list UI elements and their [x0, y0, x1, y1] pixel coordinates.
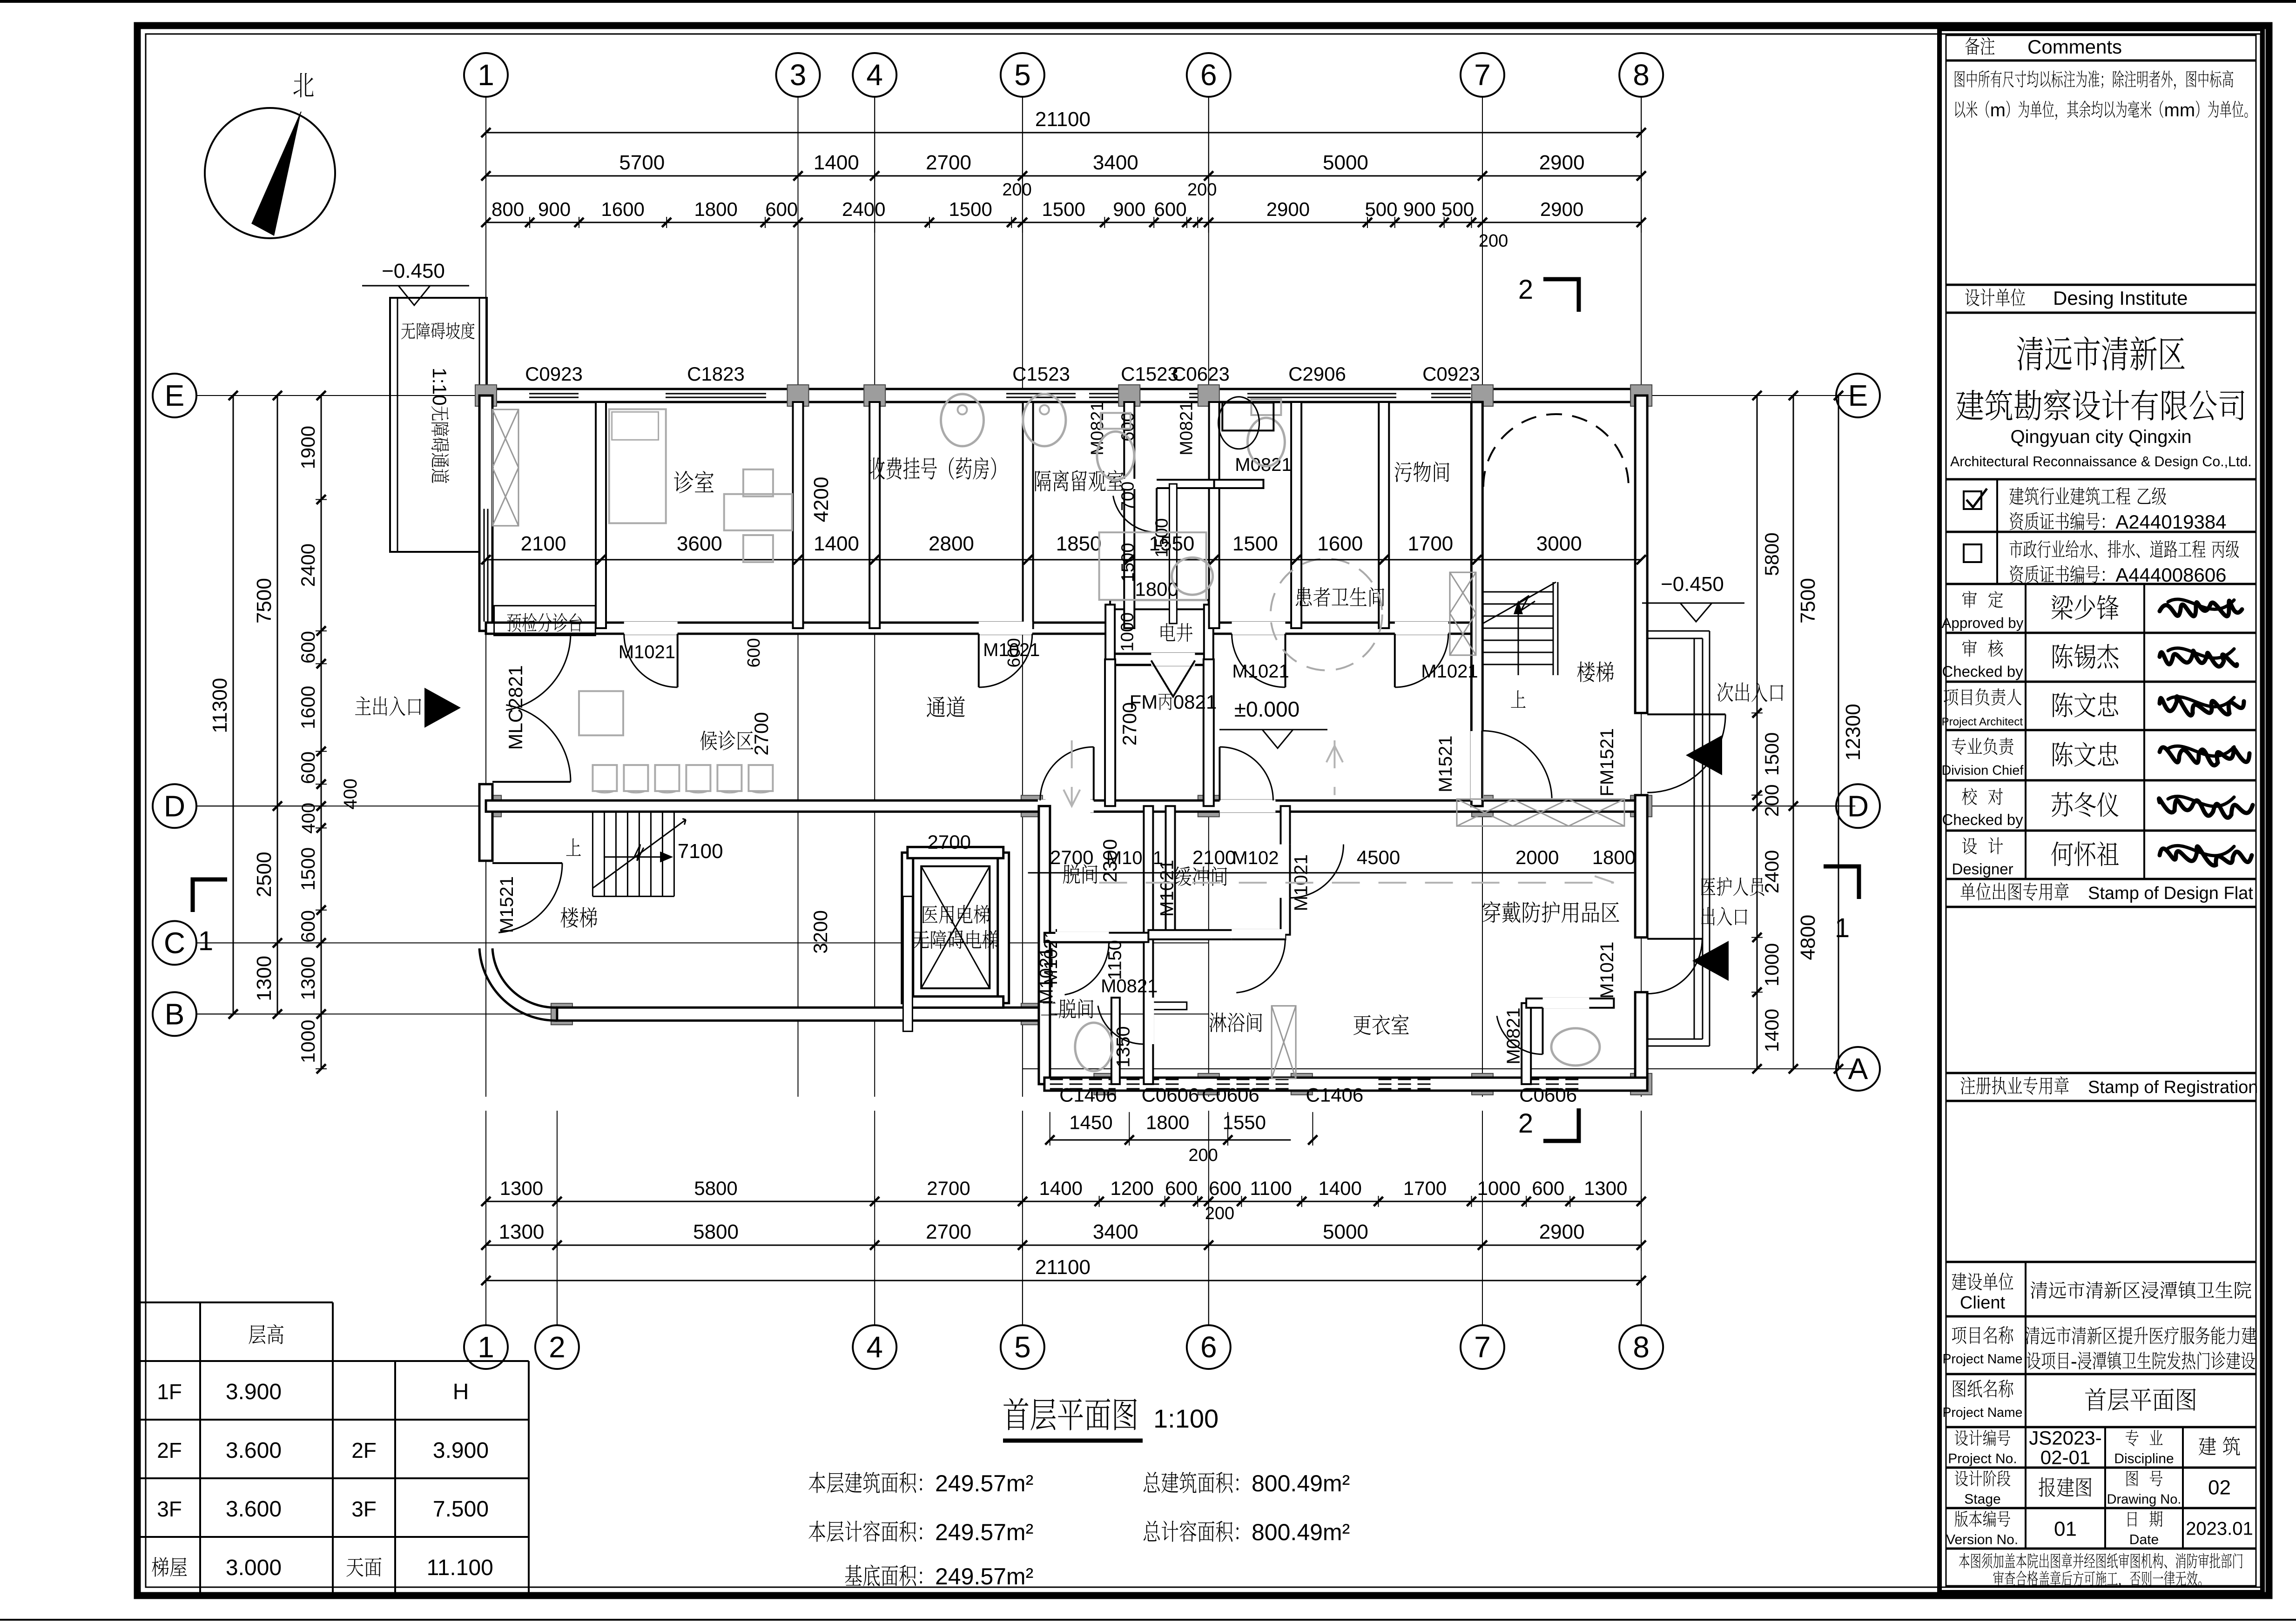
page bottom edge line	[0, 1619, 2296, 1621]
svg-text:C1523: C1523	[1012, 363, 1070, 385]
svg-text:7500: 7500	[1797, 578, 1819, 624]
main entrance label	[355, 697, 371, 715]
stamp of registration header	[1960, 1077, 1975, 1094]
windows in top wall	[529, 389, 579, 390]
svg-text:7100: 7100	[678, 840, 723, 863]
svg-text:1500: 1500	[1761, 732, 1783, 776]
svg-text:C0923: C0923	[1422, 363, 1480, 385]
cabinet in triage room	[492, 409, 518, 526]
accessible ramp box	[390, 298, 487, 552]
svg-text:2300: 2300	[1099, 839, 1121, 882]
svg-text:FM1521: FM1521	[1597, 728, 1617, 797]
svg-text:Project Architect: Project Architect	[1942, 716, 2023, 728]
svg-text:1300: 1300	[499, 1221, 545, 1243]
svg-text:8: 8	[1633, 1330, 1650, 1364]
svg-text:1200: 1200	[1110, 1177, 1153, 1199]
svg-text:5800: 5800	[694, 1177, 737, 1199]
flow dashed arrows gray	[1099, 882, 1614, 884]
title block rails	[1946, 60, 2256, 62]
door FM1021 staff exit	[1647, 938, 1702, 940]
svg-text:C: C	[164, 926, 185, 959]
furniture 诊室 bed	[609, 409, 666, 523]
svg-text:3.900: 3.900	[433, 1438, 489, 1463]
approval row Checked by 陈锡杰	[1962, 640, 1977, 657]
svg-text:2F: 2F	[157, 1438, 182, 1462]
svg-text:1500: 1500	[1152, 518, 1172, 558]
svg-text:2500: 2500	[253, 852, 276, 897]
预检分诊台 box	[494, 606, 596, 636]
room labels suite	[1063, 864, 1080, 884]
svg-text:1500: 1500	[1118, 543, 1138, 583]
left stair diagonal cut	[593, 820, 686, 888]
grid bubble 5 top	[1001, 53, 1044, 97]
secondary exit label	[1717, 682, 1733, 702]
备注 Comments	[1965, 37, 1980, 55]
right stair arrow	[1518, 608, 1519, 675]
svg-text:1900: 1900	[297, 426, 319, 469]
svg-text:600: 600	[1004, 638, 1024, 667]
svg-text:500: 500	[1441, 198, 1474, 220]
columns on E axis	[475, 385, 497, 406]
D wall left part	[486, 800, 1044, 811]
svg-text:12300: 12300	[1842, 704, 1865, 760]
svg-text:Division Chief: Division Chief	[1942, 763, 2024, 778]
waiting chairs	[593, 765, 617, 791]
svg-text:C0606: C0606	[1142, 1084, 1199, 1106]
svg-text:4800: 4800	[1797, 915, 1819, 960]
chair 预检分诊台	[579, 691, 623, 735]
svg-text:200: 200	[1205, 1204, 1234, 1223]
left stair treads	[592, 812, 593, 896]
svg-text:Stamp of Registration: Stamp of Registration	[2088, 1078, 2258, 1097]
svg-text:7.500: 7.500	[433, 1497, 489, 1522]
door M1521 stair room entry	[1470, 731, 1483, 800]
svg-text:1800: 1800	[1146, 1111, 1189, 1133]
door M1021 into 诊室	[624, 622, 678, 635]
svg-text:4: 4	[866, 58, 883, 92]
svg-text:H: H	[453, 1380, 469, 1404]
svg-text:M1021: M1021	[1421, 661, 1478, 682]
svg-text:200: 200	[1188, 1146, 1218, 1165]
svg-text:3400: 3400	[1093, 151, 1138, 174]
door M1021 in D wall right	[1219, 799, 1275, 812]
svg-text:Comments: Comments	[2027, 36, 2122, 58]
north label 北	[293, 73, 313, 98]
grid bubble E right	[1836, 374, 1880, 417]
grid bubble D right	[1836, 784, 1880, 828]
project name row	[1952, 1327, 1966, 1344]
svg-text:2900: 2900	[1539, 1221, 1585, 1243]
svg-text:2100: 2100	[1192, 846, 1236, 868]
svg-text:400: 400	[340, 778, 361, 810]
svg-text:5: 5	[1014, 1330, 1031, 1364]
dashed arch right stair room	[1483, 414, 1629, 487]
door M1021 in D wall left	[1038, 799, 1094, 812]
south wall of suite	[1044, 1078, 1647, 1091]
svg-text:900: 900	[1403, 198, 1436, 220]
svg-text:D: D	[164, 789, 185, 823]
svg-text:Approved by: Approved by	[1942, 615, 2024, 631]
dimension chain left minor	[321, 396, 322, 1069]
section mark 1 right	[1824, 866, 1859, 899]
dimension chain top major	[486, 175, 1641, 177]
svg-text:11300: 11300	[209, 678, 231, 733]
left exterior wall lower + M1521	[479, 784, 492, 861]
dimension chain right mid	[1793, 396, 1794, 1069]
grid bubble B left	[153, 992, 196, 1036]
svg-text:5800: 5800	[1761, 532, 1783, 576]
svg-text:800.49m²: 800.49m²	[1252, 1470, 1350, 1496]
svg-text:M1521: M1521	[497, 876, 517, 933]
svg-text:Project No.: Project No.	[1948, 1451, 2017, 1467]
svg-text:1400: 1400	[1318, 1177, 1361, 1199]
dimension chain right minor	[1757, 396, 1758, 1069]
svg-text:mm: mm	[2164, 100, 2195, 121]
svg-text:Stamp of Design Flat: Stamp of Design Flat	[2088, 884, 2253, 903]
svg-text:600: 600	[744, 638, 764, 667]
right stair treads	[1482, 591, 1553, 593]
svg-text:600: 600	[1165, 1177, 1198, 1199]
approval row Division Chief 陈文忠	[1952, 738, 1966, 755]
svg-text:2800: 2800	[929, 532, 974, 555]
section mark 1 left	[193, 879, 227, 912]
svg-text:2000: 2000	[1515, 846, 1559, 868]
svg-text:M0821: M0821	[1235, 455, 1292, 475]
svg-text:1500: 1500	[297, 847, 319, 891]
toilet in C0623 WC black	[1219, 397, 1259, 449]
right exterior wall	[1635, 396, 1647, 713]
approval row Designer 何怀祖	[1962, 838, 1977, 854]
svg-text:M0821: M0821	[1177, 401, 1197, 455]
drawing name row	[1953, 1380, 1966, 1398]
svg-text:−0.450: −0.450	[1661, 573, 1724, 596]
suite partitions	[1144, 806, 1153, 1084]
dimension chain right total	[1838, 396, 1839, 1069]
grille on D wall east part	[1457, 799, 1624, 826]
svg-text:1350: 1350	[1113, 1026, 1133, 1067]
toilet in staff WC	[1551, 1028, 1600, 1066]
svg-text:MLC2821: MLC2821	[505, 665, 526, 750]
svg-text:02-01: 02-01	[2040, 1447, 2090, 1469]
svg-text:01: 01	[2054, 1518, 2077, 1541]
north arrow needle	[252, 112, 301, 236]
svg-text:E: E	[165, 379, 185, 412]
client row	[2025, 1262, 2027, 1427]
grid bubble 7 bottom	[1461, 1325, 1504, 1369]
toilets/basins gray	[1097, 431, 1134, 480]
svg-text:1:100: 1:100	[1153, 1404, 1219, 1433]
svg-text:1500: 1500	[949, 198, 992, 220]
svg-text:0821: 0821	[1173, 691, 1217, 713]
svg-text:2023.01: 2023.01	[2186, 1519, 2253, 1539]
grid bubble A right	[1836, 1047, 1880, 1091]
svg-text:2700: 2700	[1050, 846, 1093, 868]
svg-text:1:10: 1:10	[429, 368, 451, 406]
svg-text:Drawing No.: Drawing No.	[2107, 1492, 2182, 1507]
svg-text:1150: 1150	[1105, 940, 1125, 980]
svg-text:11.100: 11.100	[427, 1556, 493, 1580]
svg-text:C2906: C2906	[1288, 363, 1346, 385]
svg-text:21100: 21100	[1035, 108, 1091, 131]
staff WC M0821	[1522, 1003, 1531, 1084]
black leader segments for grid axes outside plan	[485, 97, 486, 233]
svg-text:1800: 1800	[1592, 846, 1636, 868]
svg-text:3600: 3600	[677, 532, 722, 555]
corridor dims	[750, 712, 772, 755]
svg-text:1300: 1300	[500, 1177, 543, 1199]
svg-text:1: 1	[478, 1330, 494, 1364]
door M1021 into 患者卫生间	[1232, 622, 1286, 635]
corridor labels	[927, 697, 945, 718]
bathroom partition walls top block	[1129, 480, 1214, 488]
stair room west wall	[1471, 402, 1482, 806]
staff entrance label	[1701, 878, 1716, 895]
signature columns	[2025, 584, 2027, 879]
svg-text:8: 8	[1633, 58, 1650, 92]
svg-text:400: 400	[298, 803, 319, 834]
svg-text:800.49m²: 800.49m²	[1252, 1519, 1350, 1545]
corridor stub walls grid5/6	[1105, 659, 1115, 806]
svg-text:2700: 2700	[750, 712, 772, 755]
dimension chain left total	[233, 396, 234, 1014]
svg-text:Designer: Designer	[1952, 860, 2013, 878]
sinks top wall	[941, 394, 984, 446]
svg-text:2400: 2400	[1761, 850, 1783, 893]
secondary exit porch	[1648, 630, 1710, 632]
svg-text:1300: 1300	[297, 957, 319, 1000]
section mark 2 bottom	[1543, 1108, 1579, 1141]
svg-text:Checked by: Checked by	[1942, 663, 2023, 680]
svg-text:M1021: M1021	[1232, 661, 1289, 682]
svg-text:249.57m²: 249.57m²	[935, 1470, 1033, 1496]
svg-text:3.600: 3.600	[226, 1438, 282, 1463]
svg-text:C0606: C0606	[1202, 1084, 1259, 1106]
svg-text:Project Name: Project Name	[1943, 1405, 2023, 1420]
svg-text:6: 6	[1200, 58, 1217, 92]
svg-text:1600: 1600	[297, 686, 319, 729]
svg-text:1400: 1400	[1761, 1009, 1783, 1052]
grid bubble 4 top	[853, 53, 896, 97]
bottom info grid	[2025, 1427, 2027, 1549]
columns on B/south walls	[551, 1003, 572, 1025]
svg-text:1600: 1600	[1317, 532, 1363, 555]
svg-text:600: 600	[297, 910, 319, 943]
svg-text:1300: 1300	[1584, 1177, 1627, 1199]
stair label left	[560, 907, 578, 928]
room labels top block	[674, 471, 693, 493]
door M1021 into 污物间	[1395, 622, 1448, 635]
grid axis lines	[485, 97, 486, 1097]
high windows in south wall	[1050, 1079, 1116, 1080]
svg-text:1500: 1500	[1042, 198, 1085, 220]
svg-text:200: 200	[1761, 784, 1783, 817]
svg-text:2F: 2F	[351, 1438, 377, 1462]
svg-text:600: 600	[765, 198, 798, 220]
svg-text:200: 200	[1187, 180, 1217, 200]
approval row Project Architect 陈文忠	[1944, 689, 1958, 705]
svg-text:7: 7	[1474, 1330, 1491, 1364]
svg-text:Desing Institute: Desing Institute	[2053, 287, 2188, 309]
svg-text:4200: 4200	[810, 477, 833, 523]
svg-text:Date: Date	[2129, 1532, 2159, 1548]
svg-text:1: 1	[198, 926, 213, 956]
svg-text:1100: 1100	[1250, 1177, 1292, 1199]
grid bubble 7 top	[1461, 53, 1504, 97]
door FM丙0821 double swing	[1151, 660, 1195, 697]
svg-text:600: 600	[1532, 1177, 1564, 1199]
svg-text:JS2023-: JS2023-	[2029, 1427, 2101, 1449]
section mark 2 top	[1543, 279, 1579, 312]
svg-text:2900: 2900	[1539, 151, 1585, 174]
svg-text:3200: 3200	[809, 910, 831, 953]
svg-text:Project Name: Project Name	[1943, 1352, 2023, 1367]
svg-text:3000: 3000	[1536, 532, 1582, 555]
svg-text:Version No.: Version No.	[1946, 1532, 2018, 1548]
svg-text:3.000: 3.000	[226, 1556, 282, 1580]
svg-text:1: 1	[478, 58, 494, 92]
svg-text:3.600: 3.600	[226, 1497, 282, 1522]
svg-text:249.57m²: 249.57m²	[935, 1563, 1033, 1589]
svg-text:C0623: C0623	[1172, 363, 1230, 385]
elevator labels	[922, 905, 938, 923]
svg-text:1550: 1550	[1223, 1111, 1266, 1133]
svg-text:A: A	[1848, 1052, 1868, 1086]
svg-text:3F: 3F	[351, 1497, 377, 1521]
svg-text:C0923: C0923	[525, 363, 583, 385]
stair label right	[1577, 662, 1595, 682]
svg-text:900: 900	[1113, 198, 1145, 220]
svg-text:2700: 2700	[928, 831, 971, 853]
svg-text:2700: 2700	[1118, 702, 1140, 745]
svg-text:M0821: M0821	[1503, 1007, 1524, 1064]
door M0821 in bathroom partition	[1112, 479, 1157, 489]
svg-text:7: 7	[1474, 58, 1491, 92]
svg-text:2400: 2400	[842, 198, 885, 220]
doors in suite	[1041, 928, 1061, 985]
svg-text:Discipline: Discipline	[2114, 1451, 2174, 1467]
svg-text:E: E	[1848, 379, 1868, 412]
svg-text:3F: 3F	[157, 1497, 182, 1521]
svg-text:4500: 4500	[1357, 846, 1400, 868]
bed 隔离留观室	[1099, 532, 1206, 600]
svg-text:1400: 1400	[814, 151, 859, 174]
svg-text:Architectural Reconnaissance &: Architectural Reconnaissance & Design Co…	[1950, 454, 2252, 469]
svg-text:1800: 1800	[694, 198, 737, 220]
svg-text:600: 600	[1154, 198, 1187, 220]
svg-text:1600: 1600	[601, 198, 644, 220]
dimension chain bottom major	[486, 1245, 1641, 1246]
svg-text:M1521: M1521	[1435, 736, 1456, 792]
svg-text:1450: 1450	[1069, 1111, 1112, 1133]
qualification 1	[1996, 479, 1998, 584]
elevator door plate	[903, 896, 912, 1031]
svg-text:2900: 2900	[1540, 198, 1583, 220]
svg-text:900: 900	[538, 198, 571, 220]
corridor top wall	[486, 623, 1110, 634]
svg-text:1700: 1700	[1403, 1177, 1447, 1199]
svg-text:2700: 2700	[926, 151, 971, 174]
grid bubble 8 top	[1619, 53, 1663, 97]
dimension chain top total	[486, 132, 1641, 134]
interior dim row top block	[486, 559, 1641, 560]
north arrow circle	[205, 108, 335, 238]
svg-text:5000: 5000	[1323, 151, 1368, 174]
dimension chain bottom minor	[486, 1201, 1641, 1202]
svg-text:1000: 1000	[1477, 1177, 1521, 1199]
electrical shaft walls	[1110, 600, 1209, 609]
page top edge line	[0, 0, 2296, 3]
svg-text:2100: 2100	[521, 532, 566, 555]
grid bubble 2 bottom	[535, 1325, 579, 1369]
svg-text:B: B	[165, 997, 185, 1031]
svg-text:2400: 2400	[297, 543, 319, 587]
svg-text:C1406: C1406	[1059, 1084, 1117, 1106]
qualification 2	[1964, 544, 1981, 562]
svg-text:A444008606: A444008606	[2115, 564, 2226, 586]
svg-text:600: 600	[297, 751, 319, 784]
area statistics	[808, 1472, 825, 1493]
svg-text:6: 6	[1200, 1330, 1217, 1364]
svg-text:3400: 3400	[1093, 1221, 1138, 1243]
columns on D axis	[480, 795, 501, 817]
storey row 梯屋	[152, 1557, 168, 1576]
grid bubble C left	[153, 921, 196, 965]
svg-text:C1823: C1823	[687, 363, 745, 385]
svg-text:5800: 5800	[693, 1221, 739, 1243]
grid bubble 6 bottom	[1187, 1325, 1231, 1369]
grid bubble 1 bottom	[464, 1325, 508, 1369]
svg-text:m: m	[1990, 100, 2006, 121]
svg-text:5000: 5000	[1323, 1221, 1368, 1243]
svg-text:2700: 2700	[927, 1177, 970, 1199]
shower X column	[1272, 1006, 1296, 1079]
grid bubble E left	[153, 374, 196, 417]
ramp label 1:10 accessible passage	[429, 368, 451, 483]
door M1021 into 收费挂号	[979, 622, 1032, 635]
stair block south wall (B)	[557, 1007, 1047, 1020]
设计单位 Desing Institute	[1965, 288, 1980, 306]
svg-text:2700: 2700	[926, 1221, 971, 1243]
svg-text:21100: 21100	[1035, 1256, 1091, 1279]
svg-text:±0.000: ±0.000	[1234, 697, 1299, 721]
svg-text:1700: 1700	[1407, 532, 1453, 555]
svg-text:1300: 1300	[253, 956, 276, 1001]
grid bubble 6 top	[1187, 53, 1231, 97]
svg-text:D: D	[1847, 789, 1869, 823]
louver window stair west wall	[1450, 572, 1476, 655]
elevator shaft	[902, 852, 913, 1003]
dimension chain bottom total	[486, 1280, 1641, 1281]
svg-text:C1406: C1406	[1306, 1084, 1364, 1106]
svg-text:M1021: M1021	[1037, 947, 1057, 1004]
grid bubble 1 top	[464, 53, 508, 97]
svg-text:Client: Client	[1960, 1293, 2006, 1313]
svg-text:1400: 1400	[1039, 1177, 1083, 1199]
svg-text:5700: 5700	[619, 151, 665, 174]
svg-text:-: -	[2071, 1350, 2077, 1372]
svg-text:600: 600	[297, 631, 319, 664]
svg-text:4: 4	[866, 1330, 883, 1364]
svg-text:200: 200	[1002, 180, 1031, 200]
right stair cut	[1482, 582, 1556, 624]
svg-text:Stage: Stage	[1964, 1492, 2000, 1507]
svg-text:200: 200	[1479, 231, 1508, 251]
svg-text:M1021: M1021	[1157, 860, 1177, 917]
svg-text:2: 2	[549, 1330, 566, 1364]
grid bubble D left	[153, 784, 196, 828]
svg-text:1000: 1000	[1761, 943, 1783, 986]
svg-text:2: 2	[1518, 1108, 1533, 1139]
